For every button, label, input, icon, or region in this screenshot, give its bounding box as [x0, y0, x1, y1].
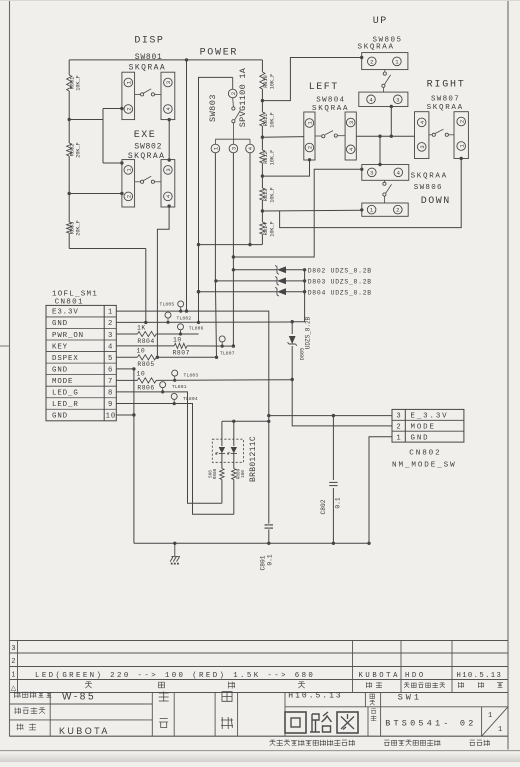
- test point TL806: [178, 324, 204, 336]
- title block main grid: [10, 693, 509, 737]
- left margin fold tick: [0, 345, 10, 347]
- page left border: [9, 0, 11, 737]
- wire DOWN/RIGHT common: [280, 159, 462, 228]
- svg-text:TL801: TL801: [172, 384, 187, 390]
- svg-text:2: 2: [307, 146, 314, 149]
- stamp 承: [222, 692, 232, 702]
- company name 富士写真フイルム株式会社: [269, 740, 275, 746]
- svg-text:R806: R806: [137, 384, 154, 391]
- connector CN801 10FL_SM1: [46, 290, 116, 421]
- svg-text:10K_F: 10K_F: [269, 112, 275, 128]
- svg-text:10K_F: 10K_F: [269, 74, 275, 90]
- svg-text:GND: GND: [52, 413, 68, 421]
- svg-text:10K_F: 10K_F: [269, 150, 275, 166]
- zener diode D804 UDZS_8.2B: [199, 287, 372, 296]
- junction rail/C801: [267, 542, 270, 545]
- wire CN801 pin8 LED_G: [116, 392, 222, 503]
- capacitor C802 0.1: [320, 482, 342, 514]
- svg-text:1K: 1K: [137, 325, 146, 332]
- ground symbol: [170, 542, 180, 565]
- svg-text:R814: R814: [263, 223, 269, 235]
- svg-text:BRB01211C: BRB01211C: [249, 436, 258, 482]
- wire KEY net to DOWN top box: [233, 169, 361, 257]
- svg-text:2: 2: [108, 320, 112, 328]
- junction E_3.3V/CN801 feeder: [267, 414, 270, 417]
- division 電子映像事業本部: [384, 740, 390, 746]
- junction at SW801 pin2: [120, 107, 123, 110]
- junction bus/UP stem: [390, 135, 393, 138]
- svg-text:DISP: DISP: [134, 36, 164, 47]
- resistor R803 20K_F: [67, 194, 82, 249]
- svg-text:R808: R808: [213, 468, 218, 479]
- svg-text:DSPEX: DSPEX: [52, 355, 79, 363]
- resistor R805 10: [116, 347, 216, 368]
- wire R802/R803 junction to SW802 pin2: [69, 193, 122, 195]
- svg-text:2: 2: [125, 107, 132, 110]
- svg-text:BTS0541- 02: BTS0541- 02: [385, 719, 476, 729]
- svg-text:C802: C802: [320, 499, 327, 514]
- svg-text:TL807: TL807: [220, 351, 235, 357]
- wire SW801 pins3/4 to SW802 pins3/4: [168, 120, 170, 160]
- wire ladder bus to LEFT switch: [262, 136, 303, 139]
- svg-text:SKQRAA: SKQRAA: [427, 104, 464, 112]
- wire E3.3V top rail: [69, 59, 262, 61]
- zener diode D805 UDZS_8.2B: [288, 316, 312, 379]
- svg-text:GND: GND: [411, 434, 430, 442]
- department 設計部: [470, 740, 476, 746]
- svg-text:100: 100: [241, 470, 246, 478]
- svg-text:2: 2: [125, 195, 132, 198]
- stamp 図: [159, 719, 168, 728]
- svg-text:R812: R812: [263, 151, 269, 163]
- junction x=198.5 at D804: [197, 290, 200, 293]
- svg-text:EXE: EXE: [134, 130, 157, 141]
- junction bus/DOWN stem: [378, 135, 381, 138]
- svg-text:R807: R807: [173, 349, 190, 356]
- svg-text:1: 1: [498, 726, 502, 734]
- svg-text:E_3.3V: E_3.3V: [411, 413, 449, 421]
- svg-text:0.1: 0.1: [267, 554, 274, 565]
- svg-text:7: 7: [108, 378, 112, 386]
- wire MODE to CN802 pin2: [292, 380, 392, 426]
- test point TL804: [171, 393, 198, 405]
- node R801/R802 junction: [68, 118, 71, 121]
- svg-text:E3.3V: E3.3V: [52, 309, 79, 317]
- revision table headers: [85, 682, 503, 689]
- svg-text:LED_R: LED_R: [52, 401, 79, 409]
- svg-text:TL803: TL803: [184, 373, 199, 379]
- test point TL801: [160, 382, 187, 394]
- svg-text:SW806: SW806: [414, 184, 443, 192]
- capacitor C801 0.1: [260, 525, 274, 571]
- node ladder junction: [261, 209, 264, 212]
- svg-text:SW1: SW1: [398, 693, 422, 703]
- svg-text:2: 2: [370, 59, 373, 66]
- svg-text:D802 UDZS_8.2B: D802 UDZS_8.2B: [308, 267, 372, 274]
- svg-text:1: 1: [488, 712, 492, 720]
- svg-text:2: 2: [458, 120, 465, 123]
- svg-text:R811: R811: [263, 114, 269, 126]
- svg-text:3: 3: [108, 332, 112, 340]
- page right border: [507, 0, 509, 750]
- svg-text:3: 3: [396, 413, 400, 421]
- node ladder junction: [261, 174, 264, 177]
- wire CN801 pin6 GND down: [116, 369, 134, 543]
- svg-text:1OFL_SM1: 1OFL_SM1: [52, 290, 98, 298]
- svg-text:MODE: MODE: [411, 424, 436, 432]
- svg-text:SW804: SW804: [316, 96, 345, 104]
- svg-text:1: 1: [396, 434, 400, 442]
- resistor R808 560: [208, 468, 224, 503]
- svg-text:TL802: TL802: [177, 316, 192, 322]
- resistor R814 10K_F: [260, 211, 276, 245]
- svg-text:R805: R805: [137, 361, 154, 368]
- wire CN801 pin10 GND: [116, 414, 134, 416]
- svg-text:UP: UP: [373, 16, 388, 27]
- label 部品番号: [15, 708, 22, 715]
- label 開発コード: [14, 692, 21, 699]
- junction rail/CN802 GND: [367, 542, 370, 545]
- junction D802 right: [303, 268, 306, 271]
- junction DSPEX/D803 column: [215, 356, 218, 359]
- junction rail/C802: [332, 542, 335, 545]
- junction DSPEX/SW802: [156, 356, 159, 359]
- resistor R809 100: [232, 468, 247, 514]
- svg-text:H10.5.13: H10.5.13: [288, 692, 342, 701]
- svg-text:D803 UDZS_8.2B: D803 UDZS_8.2B: [308, 279, 372, 286]
- svg-text:3: 3: [165, 168, 172, 171]
- resistor R810 10K_F: [260, 60, 276, 101]
- junction D804 left: [197, 290, 200, 293]
- resistor R802 20K_F: [67, 120, 82, 194]
- wire ladder to LEFT pin2: [262, 160, 309, 176]
- wire C802 column: [332, 416, 334, 544]
- big stamp 回路図: [285, 712, 358, 733]
- wire SW802 common down-jog to DSPEX net: [157, 206, 169, 357]
- svg-text:KUBOTA: KUBOTA: [359, 672, 400, 680]
- svg-text:5: 5: [108, 355, 112, 363]
- svg-text:6: 6: [108, 366, 112, 374]
- junction at SW802 pin1: [120, 161, 123, 164]
- svg-text:2: 2: [396, 424, 400, 432]
- junction x=198.5 at GND row: [197, 321, 200, 324]
- svg-text:PWR_ON: PWR_ON: [52, 332, 84, 340]
- junction GND/R803 feed: [144, 321, 147, 324]
- junction D802 left: [232, 268, 235, 271]
- svg-text:KUBOTA: KUBOTA: [59, 726, 110, 736]
- svg-text:C801: C801: [260, 555, 267, 570]
- node R802/R803 junction: [68, 192, 71, 195]
- svg-text:LEFT: LEFT: [309, 82, 339, 93]
- svg-text:3: 3: [231, 147, 238, 150]
- stamp 検: [159, 692, 169, 702]
- switch SW804 SKQRAA (LEFT): [304, 96, 357, 160]
- resistor R807 10: [116, 336, 233, 356]
- junction E3.3V feeder at CN801 pin1 row: [185, 309, 188, 312]
- svg-text:20K_F: 20K_F: [76, 142, 82, 158]
- svg-text:1: 1: [106, 413, 110, 421]
- wire CN801 pin2 GND: [116, 321, 292, 323]
- svg-text:3: 3: [396, 96, 399, 103]
- zener diode D803 UDZS_8.2B: [216, 277, 372, 286]
- svg-text:DOWN: DOWN: [421, 196, 451, 207]
- svg-text:SKQRAA: SKQRAA: [312, 105, 349, 113]
- svg-text:0: 0: [111, 413, 115, 421]
- label 名称: [370, 694, 376, 705]
- svg-text:10K_F: 10K_F: [76, 75, 82, 91]
- switch SW803 SPVG1100-1A (POWER): [208, 67, 254, 153]
- svg-text:NM_MODE_SW: NM_MODE_SW: [392, 462, 457, 470]
- label 図番: [371, 709, 377, 721]
- wire R801/R802 junction to SW801-SW802: [69, 109, 122, 164]
- wire E3.3V feeder x=186.5: [186, 60, 188, 311]
- svg-text:GND: GND: [52, 320, 68, 328]
- junction D803 right: [303, 279, 306, 282]
- switch SW802 SKQRAA (EXE): [122, 142, 175, 207]
- switch SW801 SKQRAA (DISP): [122, 53, 175, 119]
- svg-text:TL805: TL805: [160, 301, 175, 307]
- svg-text:LED_G: LED_G: [52, 389, 79, 397]
- label 担当: [17, 724, 24, 731]
- svg-text:10: 10: [137, 347, 146, 354]
- svg-text:MODE: MODE: [52, 378, 73, 386]
- switch SW806 SKQRAA (DOWN): [362, 165, 409, 217]
- resistor R812 10K_F: [260, 137, 276, 176]
- wire bus between LEFT and RIGHT: [356, 135, 414, 137]
- svg-text:3: 3: [419, 145, 426, 148]
- svg-text:UDZS_8.2B: UDZS_8.2B: [305, 316, 312, 349]
- wire ground rail: [134, 542, 369, 544]
- optocoupler/LED pack BRB01211C: [212, 421, 258, 482]
- svg-text:D804 UDZS_8.2B: D804 UDZS_8.2B: [308, 289, 372, 296]
- wire SW803 pin1 down to DSPEX/D803 net: [214, 153, 216, 281]
- svg-text:2: 2: [230, 92, 237, 95]
- svg-text:SW801: SW801: [135, 53, 163, 62]
- wire CN802 pin1 GND: [369, 437, 392, 544]
- svg-text:560: 560: [208, 470, 213, 478]
- svg-text:H10.5.13: H10.5.13: [457, 672, 503, 680]
- top scan edge: [0, 0, 520, 2]
- svg-text:2: 2: [12, 658, 16, 665]
- resistor R813 10K_F: [260, 176, 276, 211]
- stamp 認: [221, 717, 233, 729]
- test point TL807: [219, 336, 235, 357]
- svg-text:2: 2: [396, 207, 399, 214]
- title block revision table: [10, 641, 509, 693]
- svg-text:3: 3: [12, 645, 16, 652]
- svg-text:GND: GND: [52, 366, 68, 374]
- wire diode common to GND row: [292, 270, 304, 322]
- junction pin4/key rail: [248, 243, 251, 246]
- junction top rail / E3.3V feeder: [185, 58, 188, 61]
- svg-text:10K_F: 10K_F: [269, 187, 275, 203]
- junction E_3.3V/C802 column: [332, 414, 335, 417]
- svg-text:4: 4: [108, 343, 112, 351]
- svg-text:CN802: CN802: [409, 449, 441, 457]
- svg-text:W-85: W-85: [62, 691, 96, 702]
- svg-text:3: 3: [165, 81, 172, 84]
- svg-text:20K_F: 20K_F: [76, 220, 82, 236]
- svg-text:TL806: TL806: [189, 325, 204, 331]
- svg-text:10: 10: [137, 370, 146, 377]
- svg-text:R810: R810: [263, 75, 269, 87]
- junction D805 bottom (MODE row): [291, 378, 294, 381]
- wire CN802 pin3 E_3.3V: [269, 415, 392, 417]
- svg-text:SKQRAA: SKQRAA: [358, 43, 395, 51]
- junction D803 left: [214, 279, 217, 282]
- wire ladder to UP switch: [262, 58, 361, 101]
- test point TL805: [160, 301, 184, 313]
- svg-text:SW802: SW802: [134, 142, 162, 151]
- svg-text:3: 3: [348, 121, 355, 124]
- svg-text:3: 3: [370, 170, 373, 177]
- connector CN802 NM_MODE_SW: [392, 409, 464, 469]
- svg-text:SKQRAA: SKQRAA: [411, 173, 448, 181]
- junction D805 top (GND row): [291, 320, 294, 323]
- svg-text:TL804: TL804: [183, 396, 198, 402]
- svg-text:1: 1: [12, 672, 16, 679]
- junction x=198.5 at key rail: [197, 243, 200, 246]
- wire UP lower box to bus: [390, 107, 392, 137]
- node ladder junction: [261, 136, 264, 139]
- svg-text:8: 8: [108, 389, 112, 397]
- svg-text:LED(GREEN) 220 --> 100 (RED): LED(GREEN) 220 --> 100 (RED) 1.5K --> 68…: [35, 672, 315, 680]
- wire ladder to DOWN bottom box: [262, 209, 361, 212]
- switch SW805 SKQRAA (UP): [358, 36, 408, 106]
- zener diode D802 UDZS_8.2B: [233, 265, 372, 274]
- wire CN801 pin1 E3.3V: [116, 311, 268, 543]
- svg-text:SKQRAA: SKQRAA: [129, 63, 167, 72]
- svg-text:1: 1: [108, 309, 112, 317]
- junction D804 right: [303, 290, 306, 293]
- resistor R811 10K_F: [260, 101, 276, 138]
- svg-text:△: △: [11, 685, 17, 692]
- svg-text:10: 10: [173, 336, 182, 343]
- svg-text:SW803: SW803: [208, 94, 218, 122]
- wire bus down to DOWN top box: [379, 136, 381, 164]
- resistor R804 1K: [116, 325, 198, 345]
- sheet 1/1 cell: [482, 707, 508, 736]
- svg-text:SW807: SW807: [431, 96, 460, 104]
- wire LED anode rail: [222, 420, 269, 422]
- svg-text:R813: R813: [263, 189, 269, 201]
- svg-text:RIGHT: RIGHT: [427, 79, 466, 90]
- svg-text:HDO: HDO: [405, 672, 426, 680]
- svg-text:KEY: KEY: [52, 343, 68, 351]
- svg-text:9: 9: [108, 401, 112, 409]
- wire key rail (bottom): [199, 244, 263, 246]
- resistor R801 10K_F: [67, 60, 82, 120]
- svg-text:0.1: 0.1: [335, 497, 342, 508]
- resistor R806 10: [116, 370, 292, 391]
- switch SW807 SKQRAA (RIGHT): [415, 96, 469, 159]
- svg-text:POWER: POWER: [200, 48, 239, 59]
- node ladder junction: [261, 99, 264, 102]
- wire R803 bottom to GND row: [69, 249, 146, 323]
- test point TL803: [172, 370, 199, 382]
- wire CN801 pin9 LED_R: [116, 404, 234, 515]
- svg-text:R804: R804: [137, 338, 154, 345]
- wire SW803 pin2 to PWR_ON net (vertical x=198.5): [199, 77, 233, 322]
- svg-text:SPVG1100 1A: SPVG1100 1A: [238, 67, 248, 127]
- test point TL802: [165, 312, 191, 324]
- wire SW803 pin4 down to key rail: [249, 153, 251, 245]
- svg-text:10K_F: 10K_F: [269, 221, 275, 237]
- wire SW803 pin3 down to KEY/D802 net: [232, 153, 234, 346]
